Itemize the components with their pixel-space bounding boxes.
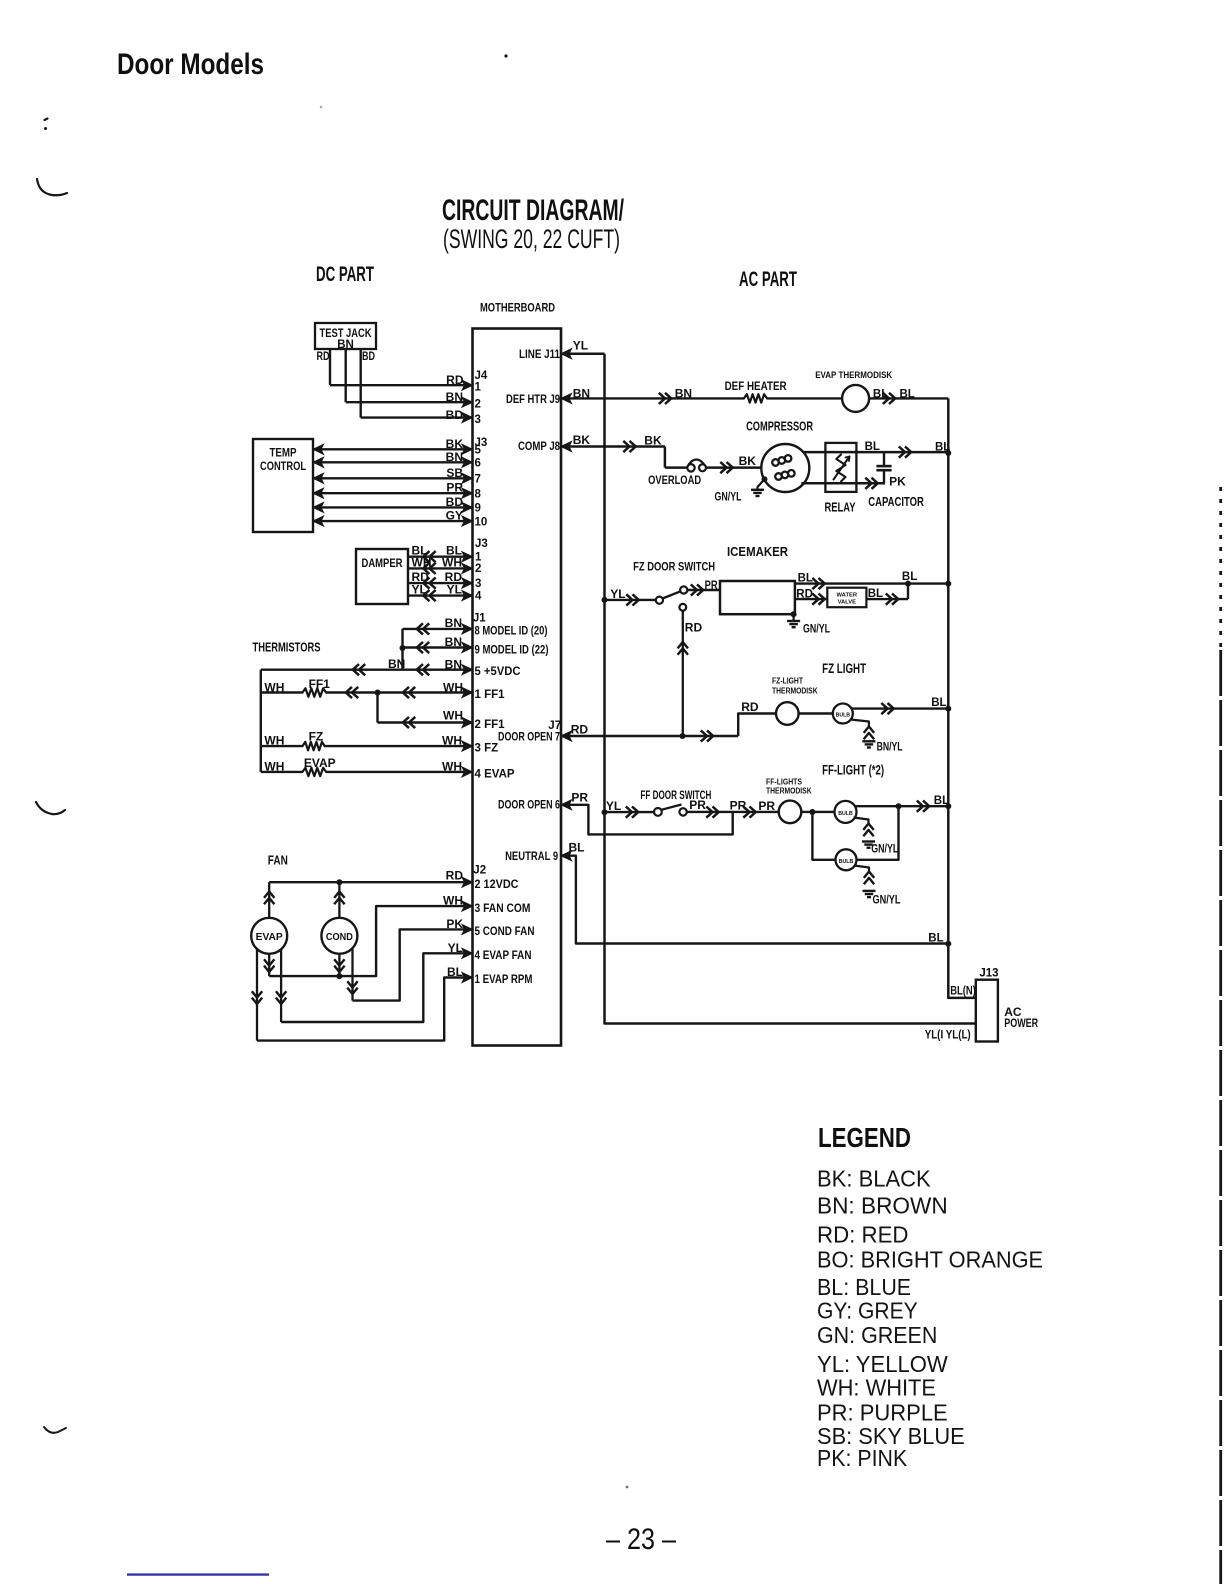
svg-text:GN/YL: GN/YL	[715, 492, 742, 504]
svg-text:THERMODISK: THERMODISK	[766, 787, 812, 796]
svg-text:WH: WH	[443, 709, 463, 723]
svg-text:2: 2	[475, 398, 481, 410]
svg-text:BO: BRIGHT ORANGE: BO: BRIGHT ORANGE	[817, 1246, 1043, 1272]
svg-text:YL: YL	[606, 799, 621, 813]
svg-text:GN: GREEN: GN: GREEN	[817, 1322, 937, 1348]
svg-text:BK: BK	[573, 433, 591, 447]
svg-text:PR: PR	[758, 799, 775, 813]
svg-text:5 COND FAN: 5 COND FAN	[475, 926, 535, 938]
svg-text:BN: BN	[445, 635, 462, 649]
svg-text:RELAY: RELAY	[825, 501, 856, 515]
svg-text:1 FF1: 1 FF1	[475, 689, 506, 701]
svg-text:BL: BL	[934, 795, 949, 807]
svg-text:3: 3	[475, 414, 481, 426]
svg-text:PR: PR	[446, 481, 463, 495]
svg-text:J3: J3	[475, 538, 488, 550]
svg-text:FZ LIGHT: FZ LIGHT	[822, 660, 866, 676]
svg-text:FF-LIGHT (*2): FF-LIGHT (*2)	[822, 762, 884, 778]
svg-text:DAMPER: DAMPER	[362, 558, 404, 570]
svg-text:BK: BK	[644, 434, 662, 448]
svg-text:YL: YL	[610, 587, 625, 601]
svg-text:GY: GREY: GY: GREY	[817, 1297, 918, 1323]
svg-text:BN: BROWN: BN: BROWN	[817, 1193, 948, 1219]
svg-text:BN: BN	[445, 658, 462, 672]
svg-text:1: 1	[475, 552, 482, 564]
svg-text:BD: BD	[446, 408, 464, 422]
svg-text:4 EVAP FAN: 4 EVAP FAN	[475, 950, 532, 962]
svg-text:2 12VDC: 2 12VDC	[475, 879, 519, 891]
svg-text:COND: COND	[326, 932, 353, 943]
svg-text:RD: RD	[741, 700, 759, 714]
svg-text:J13: J13	[979, 968, 998, 980]
svg-text:WH: WH	[443, 894, 463, 908]
svg-text:FZ: FZ	[309, 730, 324, 744]
svg-text:RD: RD	[571, 723, 589, 737]
svg-text:8 MODEL ID (20): 8 MODEL ID (20)	[475, 626, 548, 638]
svg-text:FAN: FAN	[268, 853, 288, 868]
svg-text:ICEMAKER: ICEMAKER	[727, 544, 789, 559]
svg-text:RD: RD	[446, 373, 464, 387]
svg-text:WH: WH	[412, 555, 432, 569]
svg-text:THERMODISK: THERMODISK	[772, 687, 818, 696]
svg-text:4 EVAP: 4 EVAP	[475, 769, 515, 781]
svg-text:OVERLOAD: OVERLOAD	[648, 475, 701, 487]
svg-text:FZ-LIGHT: FZ-LIGHT	[772, 677, 803, 686]
svg-text:YL: YL	[573, 339, 588, 353]
svg-text:AC PART: AC PART	[739, 268, 797, 291]
svg-text:DEF HEATER: DEF HEATER	[725, 381, 788, 393]
svg-text:BK: BK	[446, 437, 464, 451]
svg-text:BL: BL	[931, 697, 946, 709]
svg-text:YL: YL	[412, 583, 427, 597]
svg-text:GN/YL: GN/YL	[803, 624, 830, 636]
svg-text:DEF HTR J9: DEF HTR J9	[506, 394, 560, 406]
svg-text:(SWING 20, 22 CUFT): (SWING 20, 22 CUFT)	[443, 224, 620, 254]
svg-text:9 MODEL ID (22): 9 MODEL ID (22)	[475, 645, 549, 657]
svg-text:J1: J1	[473, 613, 486, 625]
svg-text:5: 5	[475, 445, 482, 457]
svg-text:BN/YL: BN/YL	[877, 742, 903, 754]
svg-text:DOOR OPEN 7: DOOR OPEN 7	[498, 732, 560, 744]
svg-text:PK: PK	[889, 475, 906, 489]
svg-text:BD: BD	[362, 351, 375, 363]
svg-text:PR: PR	[689, 798, 706, 812]
svg-text:Door Models: Door Models	[117, 48, 264, 81]
svg-text:LINE J11: LINE J11	[519, 349, 561, 361]
svg-text:BL(N): BL(N)	[950, 986, 976, 998]
svg-text:MOTHERBOARD: MOTHERBOARD	[480, 303, 555, 315]
svg-text:5 +5VDC: 5 +5VDC	[475, 666, 521, 678]
svg-text:BN: BN	[573, 387, 590, 401]
svg-text:BL: BL	[868, 588, 883, 600]
svg-text:J7: J7	[548, 720, 561, 732]
svg-text:WH: WH	[264, 760, 284, 774]
svg-text:FF1: FF1	[309, 677, 331, 691]
svg-text:BL: BL	[447, 965, 463, 979]
svg-text:TEMP: TEMP	[270, 448, 297, 460]
svg-text:WH: WH	[442, 760, 462, 774]
svg-text:BULB: BULB	[839, 859, 854, 865]
svg-text:PR: PR	[571, 791, 588, 805]
svg-text:POWER: POWER	[1004, 1016, 1038, 1030]
svg-text:– 23 –: – 23 –	[606, 1523, 676, 1556]
svg-text:THERMISTORS: THERMISTORS	[253, 640, 321, 655]
svg-text:BULB: BULB	[838, 811, 853, 817]
svg-text:RD: RD	[685, 621, 703, 635]
svg-text:BL: BL	[900, 389, 915, 401]
svg-text:CAPACITOR: CAPACITOR	[868, 495, 924, 509]
svg-text:J4: J4	[475, 370, 488, 382]
svg-text:4: 4	[475, 590, 482, 602]
svg-text:SB: SB	[446, 466, 463, 480]
svg-text:BN: BN	[446, 450, 463, 464]
svg-text:DOOR OPEN 6: DOOR OPEN 6	[498, 800, 560, 812]
svg-text:VALVE: VALVE	[838, 600, 857, 606]
svg-text:BL: BLUE: BL: BLUE	[817, 1274, 911, 1300]
svg-text:9: 9	[475, 503, 481, 515]
svg-text:EVAP: EVAP	[256, 932, 283, 943]
svg-text:WH: WH	[264, 681, 284, 695]
svg-text:BK: BK	[739, 454, 757, 468]
svg-text:BK: BLACK: BK: BLACK	[817, 1165, 931, 1191]
svg-text:CONTROL: CONTROL	[260, 461, 306, 473]
svg-text:EVAP THERMODISK: EVAP THERMODISK	[815, 370, 892, 381]
svg-text:1: 1	[475, 381, 482, 393]
svg-text:PR: PR	[730, 798, 747, 812]
svg-text:BD: BD	[446, 495, 464, 509]
svg-text:8: 8	[475, 488, 482, 500]
svg-text:PK: PINK: PK: PINK	[817, 1445, 908, 1471]
svg-text:PK: PK	[446, 917, 463, 931]
svg-text:BN: BN	[675, 387, 692, 401]
svg-text:PR: PR	[705, 578, 718, 592]
svg-text:2: 2	[475, 563, 481, 575]
svg-text:LEGEND: LEGEND	[818, 1122, 911, 1153]
svg-text:BL: BL	[928, 933, 943, 945]
svg-text:YL(I YL(L): YL(I YL(L)	[925, 1030, 971, 1042]
svg-text:COMP J8: COMP J8	[518, 441, 561, 453]
svg-text:EVAP: EVAP	[304, 756, 336, 770]
svg-text:FF-LIGHTS: FF-LIGHTS	[766, 777, 803, 786]
svg-text:2 FF1: 2 FF1	[475, 719, 506, 731]
svg-text:WH: WH	[264, 734, 284, 748]
svg-text:1 EVAP RPM: 1 EVAP RPM	[475, 974, 533, 986]
svg-text:WH: WH	[442, 734, 462, 748]
svg-text:PR: PURPLE: PR: PURPLE	[817, 1399, 948, 1425]
svg-text:CIRCUIT DIAGRAM/: CIRCUIT DIAGRAM/	[442, 194, 624, 227]
svg-text:BN: BN	[388, 657, 405, 671]
svg-text:COMPRESSOR: COMPRESSOR	[746, 420, 813, 434]
svg-text:YL: YELLOW: YL: YELLOW	[817, 1351, 948, 1377]
svg-text:WATER: WATER	[837, 593, 858, 599]
svg-text:RD: RD	[446, 869, 464, 883]
svg-text:YL: YL	[447, 583, 462, 597]
svg-text:FZ DOOR SWITCH: FZ DOOR SWITCH	[633, 560, 715, 574]
svg-text:BL: BL	[569, 841, 585, 855]
svg-text:GN/YL: GN/YL	[873, 895, 901, 907]
svg-text:6: 6	[475, 458, 481, 470]
svg-text:7: 7	[475, 474, 481, 486]
svg-text:BN: BN	[446, 390, 463, 404]
svg-text:BL: BL	[935, 442, 950, 454]
svg-text:RD: RD	[796, 589, 813, 601]
svg-text:DC PART: DC PART	[316, 263, 374, 286]
svg-text:WH: WH	[442, 555, 462, 569]
svg-text:BULB: BULB	[836, 713, 851, 719]
svg-text:GY: GY	[446, 509, 463, 523]
svg-text:3 FAN COM: 3 FAN COM	[475, 903, 531, 915]
svg-text:3 FZ: 3 FZ	[475, 743, 499, 755]
svg-text:GN/YL: GN/YL	[871, 844, 898, 856]
svg-text:WH: WH	[443, 681, 463, 695]
svg-text:RD: RD	[317, 351, 330, 363]
svg-text:10: 10	[475, 516, 488, 528]
svg-text:BL: BL	[798, 573, 813, 585]
svg-text:BL: BL	[865, 441, 880, 453]
svg-text:J2: J2	[473, 865, 486, 877]
svg-text:BN: BN	[445, 616, 462, 630]
svg-text:RD: RED: RD: RED	[817, 1222, 909, 1248]
svg-text:NEUTRAL 9: NEUTRAL 9	[505, 851, 558, 863]
svg-text:3: 3	[475, 578, 481, 590]
svg-text:WH: WHITE: WH: WHITE	[817, 1374, 936, 1400]
svg-text:YL: YL	[448, 941, 463, 955]
